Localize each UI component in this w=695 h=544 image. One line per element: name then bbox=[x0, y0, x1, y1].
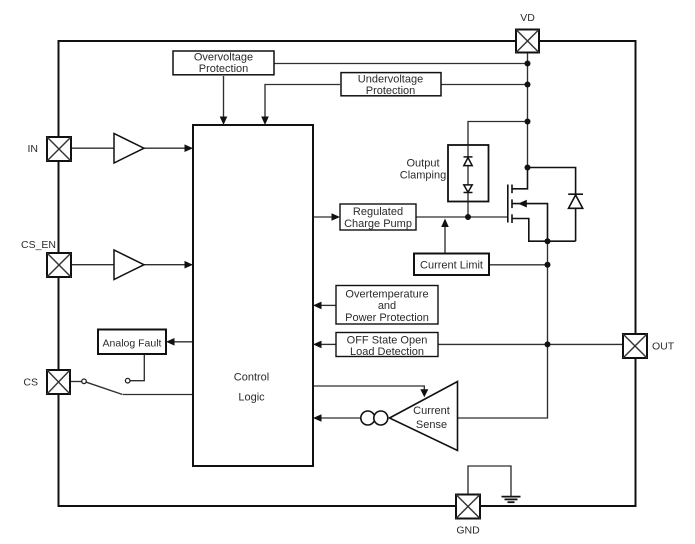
svg-text:IN: IN bbox=[28, 143, 39, 155]
svg-text:Protection: Protection bbox=[366, 85, 416, 97]
svg-text:Analog Fault: Analog Fault bbox=[103, 338, 162, 350]
svg-text:Power Protection: Power Protection bbox=[345, 312, 429, 324]
svg-text:Regulated: Regulated bbox=[353, 206, 403, 218]
svg-text:Logic: Logic bbox=[238, 392, 265, 404]
svg-text:and: and bbox=[378, 300, 396, 312]
svg-text:Output: Output bbox=[406, 158, 439, 170]
svg-text:CS_EN: CS_EN bbox=[21, 239, 56, 251]
svg-text:Overvoltage: Overvoltage bbox=[194, 52, 253, 64]
svg-text:Load Detection: Load Detection bbox=[350, 346, 424, 358]
svg-text:Clamping: Clamping bbox=[400, 170, 446, 182]
svg-text:Overtemperature: Overtemperature bbox=[345, 289, 428, 301]
svg-text:OFF State Open: OFF State Open bbox=[347, 335, 428, 347]
svg-text:GND: GND bbox=[456, 525, 480, 537]
svg-text:Sense: Sense bbox=[416, 419, 447, 431]
svg-text:VD: VD bbox=[520, 12, 535, 24]
svg-text:Current Limit: Current Limit bbox=[420, 260, 483, 272]
svg-text:Undervoltage: Undervoltage bbox=[358, 74, 423, 86]
svg-text:OUT: OUT bbox=[652, 341, 675, 353]
svg-text:CS: CS bbox=[23, 377, 38, 389]
svg-text:Current: Current bbox=[413, 405, 450, 417]
svg-text:Charge Pump: Charge Pump bbox=[344, 218, 412, 230]
svg-text:Control: Control bbox=[234, 372, 269, 384]
svg-text:Protection: Protection bbox=[199, 63, 249, 75]
